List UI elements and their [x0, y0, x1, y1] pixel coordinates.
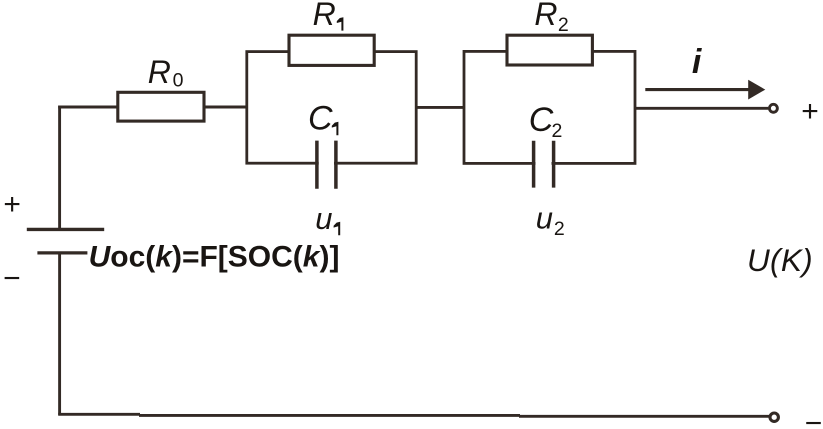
wire rail to positive terminal — [635, 107, 768, 110]
RC loop 2 outline — [464, 51, 635, 163]
wire R0 to node A — [203, 105, 248, 108]
svg-text:U(K): U(K) — [747, 242, 813, 278]
wire gap for capacitor C1 — [319, 156, 334, 170]
svg-text:+: + — [3, 188, 21, 221]
svg-text:Uoc(k)=F[SOC(k)]: Uoc(k)=F[SOC(k)] — [89, 240, 340, 273]
svg-text:u: u — [536, 200, 553, 235]
wire gap for capacitor C2 — [536, 156, 552, 170]
current arrow shaft — [645, 88, 751, 91]
svg-text:+: + — [801, 95, 819, 128]
svg-text:2: 2 — [554, 218, 565, 240]
svg-text:2: 2 — [552, 120, 563, 142]
battery top plate — [27, 228, 104, 231]
current arrow head — [748, 80, 765, 100]
svg-text:C: C — [308, 100, 333, 138]
wire left vertical upper — [58, 106, 61, 230]
resistor R0 — [118, 92, 204, 121]
svg-text:i: i — [692, 43, 703, 81]
wire bottom return — [58, 414, 769, 416]
wire main rail from left corner to R0 — [58, 106, 118, 109]
node A : RC loop 1 outline — [247, 52, 416, 164]
svg-text:R: R — [148, 54, 171, 90]
svg-text:−: − — [805, 407, 823, 429]
svg-text:R: R — [534, 0, 557, 32]
capacitor C2 — [534, 141, 554, 188]
wire node B between loops — [416, 106, 465, 109]
svg-text:−: − — [3, 262, 21, 295]
wire left vertical lower — [58, 253, 61, 415]
capacitor C1 — [317, 141, 336, 189]
svg-text:R: R — [313, 0, 336, 32]
terminal positive — [769, 104, 777, 112]
svg-text:2: 2 — [558, 14, 569, 36]
resistor R1 — [289, 35, 374, 65]
terminal negative — [770, 413, 778, 421]
svg-text:C: C — [529, 101, 554, 139]
svg-text:0: 0 — [173, 70, 184, 92]
battery bottom plate — [37, 251, 87, 254]
resistor R2 — [507, 35, 592, 65]
svg-text:u: u — [315, 201, 332, 236]
